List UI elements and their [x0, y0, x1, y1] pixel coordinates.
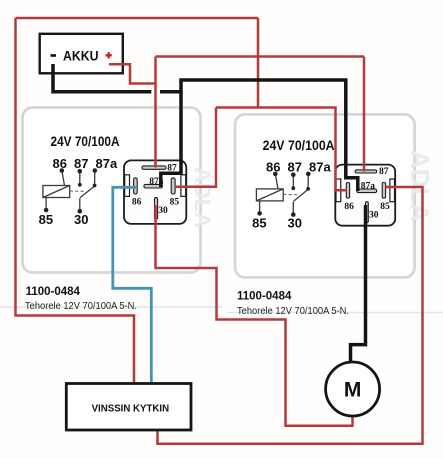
- relay card right: [235, 114, 415, 277]
- right schematic terminal dots: [257, 172, 310, 217]
- svg-text:86: 86: [344, 202, 354, 212]
- svg-text:87: 87: [379, 167, 389, 177]
- wire left 85 link: [175, 108, 216, 187]
- svg-text:85: 85: [170, 197, 180, 207]
- left socket slot 85: [171, 178, 175, 194]
- wire top frame: [16, 17, 259, 20]
- red wire: positive feed net (battery + to both 87 pins, frame loop to winch switch): [16, 18, 365, 384]
- black wire: ground bus to both 87a pins: [161, 80, 358, 191]
- svg-text:1100-0484: 1100-0484: [237, 291, 292, 303]
- winch switch box: [66, 384, 191, 431]
- battery minus sign: [51, 54, 57, 57]
- left socket slot 30: [155, 198, 158, 220]
- svg-text:Tehorele 12V 70/100A 5-N.: Tehorele 12V 70/100A 5-N.: [237, 306, 349, 317]
- svg-text:30: 30: [288, 216, 302, 231]
- right schematic dashed actuator link: [283, 193, 297, 195]
- svg-text:VINSSIN KYTKIN: VINSSIN KYTKIN: [92, 404, 170, 415]
- left schematic pin 86 lead: [62, 171, 65, 186]
- right schematic switch arm: [294, 189, 309, 201]
- right schematic pin 87 lead: [292, 175, 294, 189]
- svg-text:85: 85: [39, 212, 53, 227]
- wire vertical to right 87: [363, 57, 366, 172]
- red wire: left 30 to motor: [156, 205, 353, 426]
- left socket tab left: [125, 175, 130, 197]
- left socket tab right: [181, 175, 186, 197]
- right socket tab left: [336, 179, 341, 202]
- svg-text:24V 70/100A: 24V 70/100A: [263, 137, 335, 153]
- blue wire: winch switch to left 86: [113, 187, 152, 384]
- faint table line left: [0, 306, 222, 308]
- red wire: right 85 to winch switch bottom: [158, 187, 423, 444]
- svg-text:87a: 87a: [309, 160, 331, 175]
- left socket slot 86: [134, 178, 138, 194]
- wire cross bus y107: [216, 108, 347, 191]
- red wire: coil feed net (left 85 to right 86): [175, 108, 347, 191]
- wire drop from top frame: [257, 18, 260, 108]
- svg-text:86: 86: [132, 197, 142, 207]
- relay card left: [23, 108, 201, 273]
- svg-text:86: 86: [266, 160, 280, 175]
- battery box AKKU: [40, 34, 123, 74]
- svg-text:M: M: [344, 379, 362, 402]
- left schematic switch arm: [80, 186, 95, 198]
- svg-text:1100-0484: 1100-0484: [26, 286, 81, 298]
- motor M: [326, 362, 380, 416]
- svg-text:85: 85: [252, 216, 266, 231]
- svg-text:86: 86: [53, 156, 67, 171]
- right socket slot 87a: [357, 189, 377, 193]
- right socket slot 85: [382, 183, 385, 199]
- wire left frame: [16, 18, 135, 384]
- black wire: right 30 to motor: [351, 205, 366, 363]
- svg-text:AKKU: AKKU: [63, 48, 99, 64]
- left schematic pin 87a lead: [94, 171, 96, 186]
- svg-text:87a: 87a: [361, 181, 376, 191]
- left schematic terminal dots: [44, 168, 97, 213]
- left socket slot 87a: [144, 184, 163, 188]
- battery plus sign: [106, 52, 112, 58]
- svg-text:30: 30: [158, 206, 168, 216]
- left socket slot 87: [142, 166, 166, 169]
- svg-text:Tehorele 12V 70/100A 5-N.: Tehorele 12V 70/100A 5-N.: [25, 301, 137, 312]
- svg-text:85: 85: [380, 202, 390, 212]
- black wire: battery minus lead: [53, 64, 181, 92]
- left socket body: [124, 160, 186, 224]
- right socket slot 30: [366, 202, 369, 223]
- svg-text:30: 30: [369, 210, 379, 220]
- wire top bus 87-87: [156, 55, 365, 58]
- right socket slot 86: [346, 183, 349, 199]
- left schematic pin 85 lead: [45, 198, 47, 211]
- left schematic dashed actuator link: [70, 190, 84, 192]
- right socket slot 87: [355, 170, 377, 173]
- right socket tab right: [390, 179, 395, 202]
- svg-text:30: 30: [74, 212, 88, 227]
- right schematic pin 86 lead: [275, 174, 278, 189]
- right schematic pin 30 lead: [292, 202, 294, 215]
- right socket body: [335, 165, 395, 226]
- wire minus lead after crossing gap: [160, 90, 181, 94]
- left schematic pin 30 lead: [79, 198, 81, 211]
- wire akku+ lead: [109, 64, 156, 83]
- svg-text:ADLA: ADLA: [190, 167, 215, 228]
- svg-text:87a: 87a: [96, 156, 118, 171]
- svg-text:87: 87: [74, 156, 88, 171]
- right schematic pin 87a lead: [307, 174, 309, 189]
- right relay coil: [256, 189, 283, 201]
- right schematic pin 85 lead: [259, 201, 261, 214]
- faint table line right: [228, 312, 443, 314]
- left schematic pin 87 lead: [79, 171, 81, 185]
- svg-text:24V 70/100A: 24V 70/100A: [51, 133, 120, 149]
- left relay coil: [43, 186, 70, 198]
- wire vertical to left 87: [154, 57, 157, 168]
- svg-text:87: 87: [288, 160, 302, 175]
